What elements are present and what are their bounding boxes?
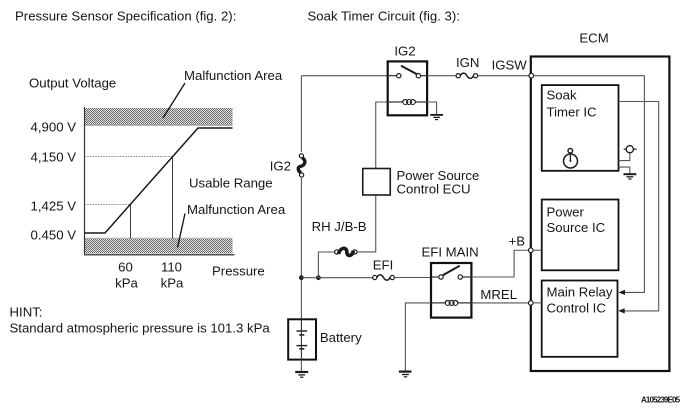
svg-text:Usable Range: Usable Range — [189, 176, 273, 191]
icon soak timer stopwatch — [564, 148, 578, 168]
svg-text:Soak Timer Circuit (fig. 3):: Soak Timer Circuit (fig. 3): — [308, 8, 460, 23]
wire battery to ground — [300, 360, 302, 372]
wire battery feed vertical — [300, 76, 302, 320]
svg-text:IGN: IGN — [456, 55, 479, 70]
wire EFI MAIN coil to ground — [405, 303, 431, 371]
leader lower — [178, 214, 186, 248]
wire IGSW to main relay control — [534, 76, 645, 293]
wire soak timer to ground — [619, 167, 630, 174]
svg-text:Control ECU: Control ECU — [397, 182, 471, 197]
fusible link IG2 — [297, 152, 306, 178]
wire MREL into main relay control IC — [533, 302, 542, 304]
junction battery/EFI — [299, 275, 304, 280]
svg-text:4,150 V: 4,150 V — [31, 150, 77, 165]
node +B — [529, 248, 534, 253]
box Main Relay Control IC — [542, 281, 618, 357]
fuse EFI — [373, 275, 395, 280]
svg-text:1,425 V: 1,425 V — [31, 199, 77, 214]
ECM box — [531, 57, 670, 372]
ground EFI MAIN coil — [399, 372, 412, 377]
svg-text:+B: +B — [509, 234, 526, 249]
ground IG2 coil — [430, 115, 443, 120]
svg-text:EFI: EFI — [373, 257, 394, 272]
reference line 4,150 V — [85, 156, 173, 158]
relay EFI MAIN box — [431, 263, 471, 318]
fuse IGN — [456, 73, 478, 78]
arrow into main relay control IC lower — [618, 308, 625, 313]
svg-text:A105239E05: A105239E05 — [641, 395, 681, 404]
wire +B into power source IC — [533, 249, 542, 251]
svg-text:kPa: kPa — [115, 276, 138, 291]
wire fusible link to PSC ECU — [357, 195, 376, 252]
svg-text:ECM: ECM — [579, 30, 608, 45]
battery — [288, 319, 316, 359]
sensor output curve — [85, 128, 233, 233]
svg-text:Output Voltage: Output Voltage — [29, 76, 116, 91]
svg-text:Main Relay: Main Relay — [547, 285, 613, 300]
wire IGN fuse to IGSW — [478, 75, 529, 77]
svg-text:kPa: kPa — [161, 276, 184, 291]
relay EFI MAIN switch — [432, 266, 470, 279]
test point circle — [624, 146, 637, 153]
svg-text:Malfunction Area: Malfunction Area — [187, 202, 286, 217]
reference line 60 kPa vertical — [130, 205, 132, 239]
relay IG2 switch — [389, 66, 426, 78]
node MREL — [529, 301, 534, 306]
svg-text:Timer IC: Timer IC — [547, 104, 598, 119]
wire EFI fuse to relay — [394, 277, 431, 279]
upper malfunction band — [84, 108, 233, 125]
x-axis line — [84, 254, 235, 256]
svg-text:Soak: Soak — [547, 88, 577, 103]
svg-text:Pressure: Pressure — [212, 264, 265, 279]
relay EFI MAIN coil — [432, 300, 470, 305]
lower malfunction band — [84, 238, 233, 254]
svg-text:RH J/B-B: RH J/B-B — [312, 219, 367, 234]
svg-text:0.450 V: 0.450 V — [31, 228, 77, 243]
relay IG2 box — [388, 61, 427, 115]
arrow into main relay control IC upper — [619, 290, 626, 295]
leader upper — [163, 83, 185, 118]
y-axis line — [84, 107, 86, 255]
wire relay to IGN fuse — [427, 75, 456, 77]
svg-text:MREL: MREL — [480, 287, 517, 302]
svg-text:Pressure Sensor Specification: Pressure Sensor Specification (fig. 2): — [15, 8, 236, 23]
svg-text:60: 60 — [118, 260, 133, 275]
wire EFI MAIN to +B — [471, 250, 528, 277]
wire RH J/B-B branch — [318, 252, 336, 278]
wire EFI MAIN coil to MREL — [471, 302, 528, 304]
relay IG2 coil — [389, 100, 426, 105]
ground battery — [295, 372, 308, 377]
wire IG2 coil to ground — [426, 102, 437, 114]
svg-text:110: 110 — [161, 260, 182, 275]
box Power Source Control ECU — [363, 169, 391, 196]
wire soak timer test point — [619, 153, 630, 161]
svg-text:Source IC: Source IC — [547, 220, 606, 235]
reference line 1,425 V — [85, 204, 131, 206]
wire EFI main run — [301, 277, 372, 279]
svg-text:IG2: IG2 — [270, 159, 291, 174]
box Soak Timer IC — [542, 85, 619, 171]
ground soak timer — [624, 174, 637, 179]
svg-text:HINT:: HINT: — [10, 305, 43, 320]
box Power Source IC — [542, 200, 619, 271]
svg-text:Power: Power — [547, 205, 585, 220]
reference line 110 kPa vertical — [172, 157, 174, 239]
svg-text:IGSW: IGSW — [492, 57, 528, 72]
wire soak timer output — [619, 102, 659, 311]
fusible link RH J/B-B — [335, 248, 357, 255]
node IGSW — [529, 73, 534, 78]
wire IG2 relay feed top — [301, 75, 387, 77]
svg-text:IG2: IG2 — [394, 44, 415, 59]
svg-text:Standard atmospheric pressure: Standard atmospheric pressure is 101.3 k… — [10, 321, 271, 336]
svg-text:Battery: Battery — [320, 330, 362, 345]
wire PSC ECU to IG2 coil — [376, 102, 388, 169]
junction RH J/B-B branch — [316, 275, 321, 280]
svg-text:Malfunction Area: Malfunction Area — [184, 68, 283, 83]
svg-text:EFI MAIN: EFI MAIN — [422, 244, 479, 259]
svg-text:Control IC: Control IC — [547, 300, 607, 315]
svg-text:4,900 V: 4,900 V — [31, 120, 77, 135]
